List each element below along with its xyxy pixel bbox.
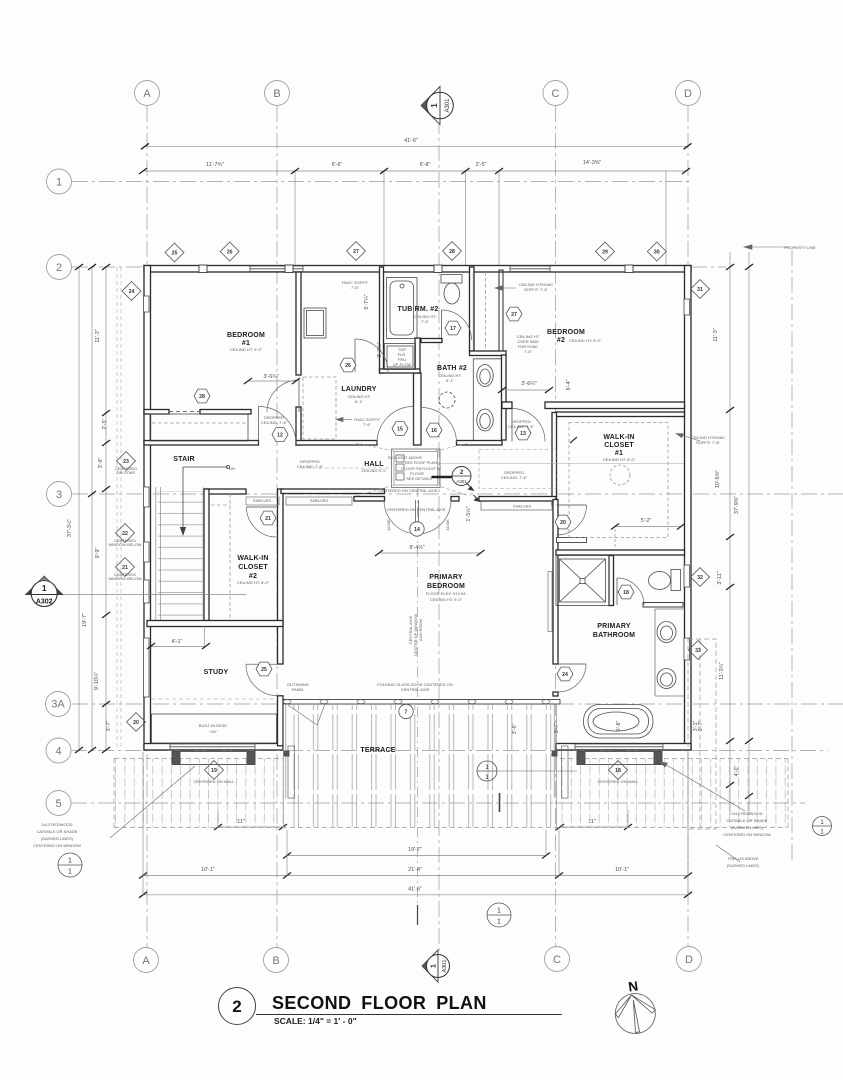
wc south wall (421, 339, 442, 343)
svg-text:BEDROOM: BEDROOM (227, 332, 265, 339)
svg-text:20: 20 (133, 720, 139, 726)
bath2 counter (472, 359, 474, 440)
grid col C (555, 106, 557, 946)
svg-text:1: 1 (430, 103, 439, 108)
room labels (173, 306, 635, 754)
catwalk right (577, 752, 662, 765)
closet1 north wall (556, 412, 685, 417)
svg-text:9'-9": 9'-9" (95, 548, 101, 559)
window left wall stair2 (144, 542, 150, 562)
svg-text:21'-4": 21'-4" (408, 867, 422, 873)
closet2 shelves dashed (229, 494, 231, 619)
door 14 double doors (384, 500, 416, 534)
svg-text:CLOSET: CLOSET (238, 564, 268, 571)
bedroom1 south wall left (144, 410, 169, 415)
svg-text:11'-3": 11'-3" (95, 329, 101, 342)
svg-text:2'-5": 2'-5" (102, 419, 108, 430)
svg-text:2x12 REDWOOD: 2x12 REDWOOD (41, 822, 72, 827)
grid row 3 (72, 493, 843, 495)
section markers (26, 87, 832, 983)
right exterior wall (685, 266, 692, 751)
ticks bottom dims (283, 853, 291, 859)
primary bath south wall (556, 744, 691, 751)
svg-text:14: 14 (414, 527, 420, 533)
svg-text:3'-11": 3'-11" (717, 571, 723, 584)
svg-text:13: 13 (520, 431, 526, 437)
svg-text:AND ROOM: AND ROOM (418, 619, 423, 641)
svg-text:CENTERED ON CENTRAL AXIS: CENTERED ON CENTRAL AXIS (379, 488, 438, 493)
hall north wall left (296, 441, 377, 446)
svg-text:SHELVES: SHELVES (310, 498, 328, 503)
svg-text:CENTERED ON WINDOW: CENTERED ON WINDOW (33, 843, 81, 848)
grid col B (276, 106, 278, 948)
stair dn arrow (183, 466, 228, 468)
svg-text:19'-7": 19'-7" (82, 613, 88, 627)
svg-text:(DASHED LINES): (DASHED LINES) (41, 836, 74, 841)
svg-text:SEE DETAILS: SEE DETAILS (406, 476, 432, 481)
svg-text:24: 24 (562, 672, 568, 678)
left dim line inner (105, 267, 107, 750)
shelves boxes hall (246, 497, 279, 505)
terrace side rails (284, 704, 557, 828)
svg-text:8'-1": 8'-1" (355, 399, 364, 404)
svg-text:11'-3¾": 11'-3¾" (719, 662, 725, 680)
svg-text:CEILING HT: 9'-0": CEILING HT: 9'-0" (430, 597, 463, 602)
shower east wall (609, 556, 614, 606)
trellis dashed box right (688, 639, 716, 829)
svg-text:D: D (685, 954, 693, 966)
wc toilet tub room (441, 275, 462, 284)
built-in desk (152, 714, 277, 743)
svg-text:CEILING: 7'-6": CEILING: 7'-6" (508, 424, 535, 429)
svg-text:3'-7": 3'-7" (554, 723, 560, 734)
svg-text:27: 27 (511, 312, 517, 318)
svg-text:5'-7¼": 5'-7¼" (364, 294, 370, 309)
svg-text:4: 4 (55, 746, 61, 758)
row bubble 4 (46, 738, 71, 763)
catwalk left (172, 751, 662, 765)
bedroom2 closet east wall (499, 270, 503, 351)
svg-text:3'-6¼": 3'-6¼" (263, 374, 278, 380)
col bubble B bottom (264, 948, 289, 973)
svg-text:27: 27 (353, 249, 359, 255)
row bubble 3A (46, 692, 71, 717)
svg-text:2: 2 (56, 262, 62, 274)
svg-text:4'-1": 4'-1" (172, 639, 183, 645)
svg-text:12: 12 (277, 433, 283, 439)
closet2 north wall (204, 489, 246, 494)
left window-center dashed pair (116, 267, 118, 750)
svg-text:22: 22 (122, 531, 128, 537)
bottom dim line 21'-4" / 10'-1" (143, 875, 688, 877)
svg-text:CEILING: 7'-6": CEILING: 7'-6" (297, 464, 324, 469)
row bubble 1 (47, 169, 72, 194)
svg-text:UP-FLOW: UP-FLOW (393, 362, 412, 367)
svg-text:7'-6": 7'-6" (524, 349, 533, 354)
svg-text:CEILING HT: 9'-0": CEILING HT: 9'-0" (569, 338, 602, 343)
grid row 4 (71, 750, 828, 752)
col bubble D top (676, 81, 701, 106)
svg-text:TRELLIS ABOVE: TRELLIS ABOVE (728, 856, 759, 861)
svg-text:B: B (273, 88, 280, 100)
ticks top dim 2 (139, 168, 147, 174)
svg-text:41'-6": 41'-6" (408, 887, 422, 893)
grid col A301 (438, 118, 440, 952)
svg-text:WALK-IN: WALK-IN (603, 434, 634, 441)
svg-text:CEILING HT: 9'-0": CEILING HT: 9'-0" (230, 347, 263, 352)
svg-text:CEILING: 7'-6": CEILING: 7'-6" (261, 420, 288, 425)
door hexagons (194, 307, 634, 719)
laundry bath2 divider wall (414, 373, 422, 445)
fru box south wall (380, 369, 421, 373)
svg-text:WINDOW BELOW: WINDOW BELOW (108, 542, 141, 547)
svg-text:25: 25 (172, 251, 178, 257)
svg-text:3'-1": 3'-1" (693, 721, 699, 732)
svg-text:26: 26 (227, 250, 233, 256)
closet2 west wall (204, 489, 209, 621)
left dim line outer (78, 267, 80, 750)
svg-text:N: N (627, 978, 639, 994)
window top wall bedroom1 (250, 266, 303, 272)
svg-text:7: 7 (405, 710, 408, 716)
top overall dim line 41'-6" (145, 145, 688, 147)
svg-text:41'-6": 41'-6" (404, 138, 418, 144)
grid row 3A (72, 703, 843, 705)
svg-text:STUDY: STUDY (204, 669, 229, 676)
svg-text:5'-2": 5'-2" (641, 518, 652, 524)
svg-text:1: 1 (68, 858, 72, 865)
leaders and notes (110, 245, 788, 925)
svg-text:#2: #2 (249, 573, 257, 580)
top segment dim line (143, 170, 686, 172)
toilet room partition wall (643, 603, 683, 608)
svg-text:DN: DN (229, 466, 235, 471)
top exterior wall (144, 266, 691, 273)
closet1 south wall (556, 550, 685, 555)
svg-text:BUILT-IN DESK: BUILT-IN DESK (199, 723, 227, 728)
svg-text:BEDROOM: BEDROOM (547, 329, 585, 336)
door 15 (377, 407, 414, 444)
svg-text:6'-8": 6'-8" (420, 162, 431, 168)
bedroom wall y494 right (479, 497, 556, 502)
bathtub (584, 705, 654, 739)
bedroom wall door jamb right (451, 497, 459, 502)
svg-text:#1: #1 (242, 340, 250, 347)
svg-text:28: 28 (449, 249, 455, 255)
door 20 closet1 (557, 505, 587, 535)
svg-text:A302: A302 (36, 599, 53, 606)
window left wall stair3 (144, 580, 150, 603)
window study south (170, 744, 255, 750)
svg-text:37'-9⅜": 37'-9⅜" (734, 496, 740, 514)
svg-text:A: A (143, 88, 151, 100)
study east wall upper (278, 489, 284, 664)
svg-text:LAUNDRY: LAUNDRY (341, 386, 376, 393)
bottom dim line 19'-7" (287, 855, 546, 857)
bath2 sink 2 (477, 409, 493, 431)
svg-text:+30": +30" (209, 729, 218, 734)
bedroom window seat trim (548, 572, 552, 632)
svg-text:A301: A301 (456, 479, 467, 484)
svg-text:A: A (142, 955, 150, 967)
door 25 study (246, 664, 278, 696)
svg-text:CENTERED ON WINDOW: CENTERED ON WINDOW (723, 832, 771, 837)
bedroom2 south wall (545, 402, 685, 409)
svg-text:3'-6": 3'-6" (512, 724, 518, 735)
svg-text:3'-7": 3'-7" (106, 721, 112, 732)
laundry cabinets (304, 308, 326, 338)
svg-text:PRIMARY: PRIMARY (429, 574, 463, 581)
svg-text:CENTERED ON CENTRAL AXIS: CENTERED ON CENTRAL AXIS (387, 507, 446, 512)
ticks top dim 1 (141, 143, 149, 149)
col bubble A top (135, 81, 160, 106)
svg-text:A301: A301 (442, 960, 448, 973)
col bubble B top (265, 81, 290, 106)
svg-text:SHELVES: SHELVES (253, 498, 271, 503)
left exterior wall (144, 266, 151, 751)
property line vertical (791, 250, 793, 862)
left dim line middle (91, 267, 93, 750)
svg-text:33: 33 (695, 648, 701, 654)
bedroom1 closet door dashed (169, 411, 200, 413)
svg-text:1: 1 (42, 583, 47, 593)
svg-text:26: 26 (345, 363, 351, 369)
bath2 / bedroom2 divider (470, 267, 475, 351)
svg-text:10'-6⅝": 10'-6⅝" (715, 470, 721, 488)
hall north wall right (457, 441, 503, 446)
svg-text:HALL: HALL (364, 461, 384, 468)
svg-text:30: 30 (654, 250, 660, 256)
svg-text:3'-9": 3'-9" (98, 458, 104, 469)
closet1 soffit dashed (569, 423, 668, 538)
svg-text:28: 28 (199, 394, 205, 400)
svg-text:1: 1 (68, 869, 72, 876)
svg-text:CEILING HT: 8'-0": CEILING HT: 8'-0" (237, 580, 270, 585)
primary sink 1 (657, 622, 676, 643)
primary bedroom east wall lower (553, 692, 558, 696)
primary vanity counter (654, 609, 656, 696)
svg-text:PROPERTY LINE: PROPERTY LINE (784, 245, 816, 250)
grid row 2 (72, 266, 147, 268)
closet1 dashed circle (610, 465, 630, 485)
stair treads (57, 465, 246, 620)
svg-text:CENTERED ON WALL: CENTERED ON WALL (598, 779, 640, 784)
small annotation texts (33, 245, 816, 868)
svg-text:D: D (684, 88, 692, 100)
title block (219, 988, 563, 1027)
outswing panel V (288, 704, 325, 725)
door 12 stair hall (259, 407, 297, 445)
svg-text:25: 25 (261, 667, 267, 673)
svg-text:B: B (272, 955, 279, 967)
svg-text:3A: 3A (51, 699, 65, 711)
fru box (385, 344, 416, 370)
svg-text:6'-6": 6'-6" (332, 162, 343, 168)
svg-text:10'-1": 10'-1" (615, 867, 629, 873)
bath2 sink 1 (477, 365, 493, 387)
svg-text:(DASHED LINES): (DASHED LINES) (731, 825, 764, 830)
svg-text:ACME: ACME (445, 519, 450, 531)
doors and swings (246, 310, 644, 696)
svg-text:9'-10¼": 9'-10¼" (94, 672, 100, 690)
row bubble 5 (46, 791, 71, 816)
bottom 11" dims (218, 826, 283, 828)
svg-text:1'-5½": 1'-5½" (465, 506, 472, 521)
svg-text:SOFFIT: 7'-6": SOFFIT: 7'-6" (524, 287, 549, 292)
col bubble C bottom (545, 947, 570, 972)
folding door stack pockets (288, 746, 295, 798)
svg-text:SECOND FLOOR PLAN: SECOND FLOOR PLAN (272, 993, 487, 1013)
window left wall bedroom1 (144, 296, 150, 312)
svg-text:37'-3½": 37'-3½" (66, 519, 73, 537)
svg-text:SOFFIT: 7'-6": SOFFIT: 7'-6" (696, 440, 721, 445)
hall skylight (301, 443, 684, 496)
door 26 laundry (355, 339, 388, 372)
tub room tub (387, 278, 418, 339)
svg-text:7'-6": 7'-6" (421, 319, 430, 324)
stair north wall (144, 441, 259, 446)
row bubble 3 (47, 482, 72, 507)
svg-text:CENTERED ON WALL: CENTERED ON WALL (194, 779, 236, 784)
hall east wall (552, 413, 557, 506)
svg-text:32: 32 (697, 575, 703, 581)
svg-text:18: 18 (615, 768, 621, 774)
svg-text:31: 31 (697, 287, 703, 293)
svg-text:CEILING: 7'-6": CEILING: 7'-6" (501, 475, 528, 480)
bedroom wall y494 left (281, 489, 385, 494)
svg-text:21: 21 (122, 565, 128, 571)
shower (556, 556, 609, 606)
svg-text:FLOOR ELEV: 574.94': FLOOR ELEV: 574.94' (426, 591, 466, 596)
svg-text:BATH #2: BATH #2 (437, 365, 467, 372)
col bubble A bottom (134, 948, 159, 973)
svg-text:1: 1 (497, 919, 501, 926)
window top wall bedroom2 (510, 266, 550, 272)
svg-text:15: 15 (397, 427, 403, 433)
grid col A (146, 106, 148, 948)
study dropped ceiling dashed (151, 698, 277, 700)
svg-text:29: 29 (602, 250, 608, 256)
svg-text:TERRACE: TERRACE (360, 747, 395, 754)
svg-text:(DASHED LINES): (DASHED LINES) (727, 863, 760, 868)
svg-text:10'-1": 10'-1" (201, 867, 215, 873)
primary bedroom east wall upper (553, 500, 558, 665)
svg-text:9'-1": 9'-1" (446, 378, 455, 383)
window diamonds (116, 242, 710, 780)
svg-text:11'-7¾": 11'-7¾" (206, 162, 224, 168)
col bubble C top (543, 81, 568, 106)
laundry west wall lower (296, 407, 301, 445)
svg-text:SHELVES: SHELVES (513, 504, 531, 509)
svg-text:A301: A301 (445, 98, 451, 113)
svg-text:9'-4½": 9'-4½" (409, 544, 424, 551)
svg-text:PANEL: PANEL (292, 687, 306, 692)
study east wall lower (278, 696, 284, 746)
svg-text:17: 17 (450, 326, 456, 332)
door 16 (421, 408, 457, 444)
svg-text:BATHROOM: BATHROOM (593, 632, 635, 639)
bedroom2 south wall left stub (502, 402, 512, 409)
svg-text:CEILING HT: 8'-0": CEILING HT: 8'-0" (603, 457, 636, 462)
svg-text:7'-6": 7'-6" (351, 285, 360, 290)
svg-text:C: C (552, 88, 560, 100)
bedroom wall door jamb left (354, 497, 385, 502)
svg-text:2x12 REDWOOD: 2x12 REDWOOD (731, 811, 762, 816)
col bubble D bottom (677, 947, 702, 972)
svg-text:2'-5": 2'-5" (476, 162, 487, 168)
svg-text:SEE ROOF PLAN: SEE ROOF PLAN (405, 460, 437, 465)
svg-text:1: 1 (56, 177, 62, 189)
door 17 bath2 (442, 310, 472, 340)
svg-text:5'-6": 5'-6" (616, 721, 622, 732)
primary toilet (671, 570, 681, 591)
svg-text:BEDROOM: BEDROOM (427, 583, 465, 590)
svg-text:1: 1 (485, 774, 489, 781)
fixtures (150, 270, 685, 743)
bath2 step wall (470, 351, 507, 356)
svg-text:3'-2½": 3'-2½" (376, 342, 383, 357)
svg-text:14'-3⅜": 14'-3⅜" (583, 160, 601, 166)
svg-text:CEILING 9'-1": CEILING 9'-1" (361, 468, 387, 473)
svg-text:16: 16 (431, 428, 437, 434)
window left wall stair (144, 487, 150, 507)
door bedroom1 (267, 380, 299, 412)
svg-text:TUB RM. #2: TUB RM. #2 (398, 306, 439, 313)
svg-text:CATWALK OR SHADE: CATWALK OR SHADE (37, 829, 78, 834)
window right wall bedroom2 (684, 299, 690, 315)
svg-text:1: 1 (497, 908, 501, 915)
svg-text:2: 2 (232, 997, 241, 1016)
svg-text:21: 21 (265, 516, 271, 522)
right dim line outer (748, 252, 750, 815)
svg-text:1: 1 (485, 764, 489, 771)
svg-text:1: 1 (431, 964, 438, 968)
door 13 closet1 (512, 409, 545, 442)
svg-text:19'-7": 19'-7" (408, 847, 422, 853)
svg-text:CENTRAL AXIS: CENTRAL AXIS (401, 687, 430, 692)
svg-text:CLOSET: CLOSET (604, 442, 634, 449)
svg-text:PRIMARY: PRIMARY (597, 623, 631, 630)
svg-text:24: 24 (129, 289, 135, 295)
door 21 closet2 (247, 507, 277, 537)
study south wall (144, 744, 283, 751)
svg-text:ON STAIR: ON STAIR (117, 470, 136, 475)
svg-text:#1: #1 (615, 450, 623, 457)
terrace corner posts (284, 751, 289, 756)
folding glass door wall (283, 700, 560, 705)
bath2 floor drain dashed (439, 392, 455, 408)
door 18 toilet (617, 578, 644, 605)
fru box east wall (415, 338, 420, 373)
svg-text:ACME: ACME (386, 519, 391, 531)
folding door hinge marks (283, 700, 550, 704)
right dim line inner (729, 252, 731, 815)
svg-text:SCALE: 1/4" = 1' - 0": SCALE: 1/4" = 1' - 0" (274, 1016, 357, 1026)
extra dim lines (143, 381, 688, 895)
svg-text:CATWALK OR SHADE: CATWALK OR SHADE (727, 818, 768, 823)
row bubble 2 (47, 255, 72, 280)
ticks left lines (75, 264, 83, 270)
tub room west wall (380, 267, 384, 373)
window right wall bath (684, 565, 690, 587)
laundry west wall upper (296, 272, 301, 375)
A302 section line (57, 594, 246, 596)
svg-text:23: 23 (123, 459, 129, 465)
door 24 bath (558, 664, 586, 692)
svg-text:6'-4": 6'-4" (566, 380, 572, 391)
stairwell / closet2 south wall (147, 621, 283, 627)
svg-text:20: 20 (560, 520, 566, 526)
